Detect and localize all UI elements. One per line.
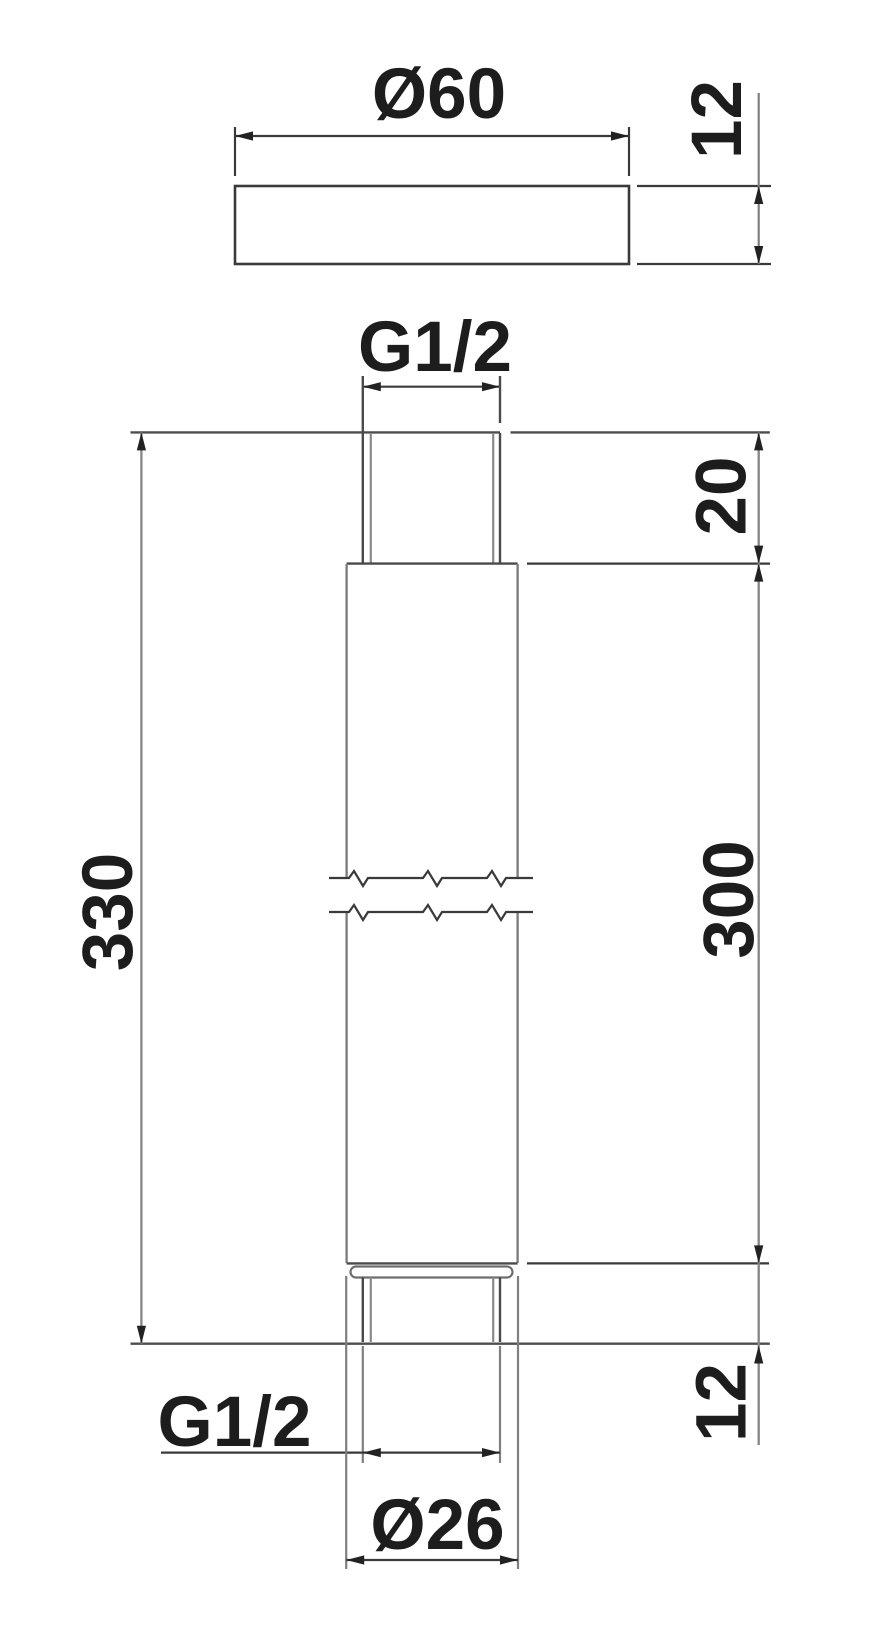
svg-text:Ø60: Ø60 (372, 55, 506, 134)
svg-text:330: 330 (69, 853, 148, 971)
svg-text:G1/2: G1/2 (158, 1383, 312, 1462)
svg-text:G1/2: G1/2 (358, 308, 512, 387)
svg-text:300: 300 (690, 840, 769, 958)
svg-text:12: 12 (683, 1363, 762, 1442)
svg-text:Ø26: Ø26 (370, 1486, 504, 1565)
svg-text:20: 20 (683, 457, 762, 536)
svg-text:12: 12 (678, 80, 757, 159)
